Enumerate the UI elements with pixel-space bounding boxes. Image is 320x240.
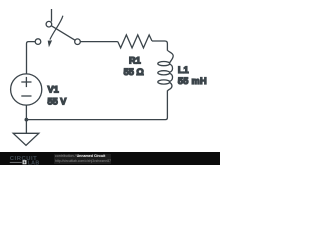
voltage source V1 [11, 74, 42, 105]
wire: switch left throw to V1 top [27, 42, 36, 74]
wire: V1 bottom to junction and ground [25, 105, 27, 133]
switch lever [51, 26, 75, 40]
switch throw terminal circle (top) [46, 21, 52, 27]
svg-text:55 mH: 55 mH [178, 76, 207, 86]
switch actuation arrow [48, 16, 63, 48]
inductor L1 coil [158, 50, 173, 91]
svg-text:V1: V1 [48, 84, 59, 94]
footer line 1: contribution / Unnamed Circuit [55, 154, 105, 158]
resistor R1 [118, 35, 152, 48]
junction node dot [25, 118, 29, 122]
svg-text:55 Ω: 55 Ω [124, 67, 144, 77]
footer CircuitLab logo [9, 154, 45, 165]
wire: resistor to inductor (top right corner) [152, 41, 167, 51]
switch unused throw circle (left) [35, 39, 41, 45]
svg-text:L1: L1 [178, 65, 189, 75]
svg-text:R1: R1 [129, 55, 141, 65]
footer watermark bar [0, 152, 220, 165]
svg-text:55 V: 55 V [48, 96, 68, 106]
wire: switch common to resistor [80, 41, 118, 43]
footer info box [54, 154, 111, 164]
switch common terminal circle (right) [75, 39, 81, 45]
ground symbol [13, 133, 39, 145]
wire: top stub to switch throw [51, 9, 53, 22]
footer line 2: url [55, 159, 111, 163]
wire: inductor to bottom corner and bottom return wire [26, 91, 167, 120]
svg-text:LAB: LAB [28, 160, 40, 165]
